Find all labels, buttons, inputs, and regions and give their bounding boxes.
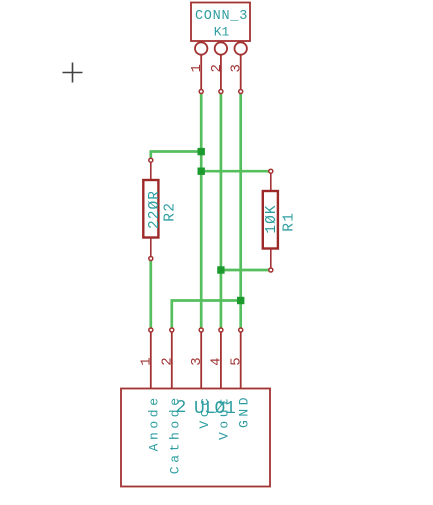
- sensor pin 1 end circle: [149, 328, 153, 332]
- svg-text:CONN_3: CONN_3: [195, 9, 248, 24]
- svg-text:R2: R2: [163, 202, 179, 222]
- resistor R2 top stub: [150, 162, 152, 180]
- sensor U1 body: [121, 389, 270, 487]
- sensor pin 4 end circle: [219, 328, 223, 332]
- sensor pin 3 stub: [200, 332, 202, 389]
- svg-text:5: 5: [229, 357, 245, 365]
- svg-text:22ØR: 22ØR: [147, 190, 163, 229]
- svg-text:U: U: [194, 399, 205, 419]
- K1 pin 3 stub: [240, 55, 242, 90]
- origin cross marker: [63, 63, 83, 83]
- sensor pin 2 stub: [171, 332, 173, 389]
- K1 pin 2 end circle: [219, 90, 223, 94]
- wire R2 bottom to sensor pin1: [149, 261, 152, 329]
- svg-text:2: 2: [209, 64, 225, 72]
- svg-text:2: 2: [160, 357, 176, 365]
- wire net Vout vertical from K1 pin2: [220, 94, 223, 329]
- junction at R1 top branch: [198, 168, 205, 175]
- svg-text:GND: GND: [236, 394, 251, 428]
- wire GND branch to sensor pin2: [172, 301, 241, 329]
- svg-text:3: 3: [229, 64, 245, 72]
- resistor R2 bottom stub: [150, 238, 152, 257]
- wire net Vcc vertical from K1 pin1: [200, 94, 203, 329]
- resistor R1 body: [263, 191, 278, 249]
- wire net GND vertical from K1 pin3: [239, 94, 242, 329]
- resistor R2 body: [143, 180, 158, 238]
- svg-text:3: 3: [189, 357, 205, 365]
- resistor R1 bottom pin circle: [269, 268, 273, 272]
- svg-text:2: 2: [176, 398, 187, 418]
- junction at R1 bottom branch: [217, 266, 224, 273]
- K1 pin 2 stub: [220, 55, 222, 90]
- K1 pin 2 circle: [215, 42, 227, 54]
- sensor pin 5 stub: [240, 332, 242, 389]
- K1 pin 1 end circle: [199, 90, 203, 94]
- svg-text:4: 4: [209, 357, 225, 365]
- K1 pin 3 circle: [235, 42, 247, 54]
- resistor R2 bottom pin circle: [149, 257, 153, 261]
- sensor pin 2 end circle: [170, 328, 174, 332]
- svg-text:1: 1: [225, 399, 236, 419]
- K1 pin 3 end circle: [239, 90, 243, 94]
- svg-text:R1: R1: [282, 212, 298, 232]
- svg-text:1ØK: 1ØK: [264, 204, 280, 233]
- svg-text:Ø: Ø: [215, 399, 226, 419]
- sensor pin 1 stub: [150, 332, 152, 389]
- K1 pin 1 stub: [200, 55, 202, 90]
- wire branch to R1 top: [201, 170, 269, 173]
- junction at GND branch: [237, 297, 244, 304]
- svg-text:K1: K1: [214, 25, 230, 40]
- sensor pin 4 stub: [220, 332, 222, 389]
- resistor R1 top stub: [270, 173, 272, 191]
- svg-text:1: 1: [139, 357, 155, 365]
- wire branch R1 bottom to Vout: [221, 269, 269, 272]
- junction at R2 branch: [198, 148, 205, 155]
- sensor pin 3 end circle: [199, 328, 203, 332]
- connector K1 body: [191, 3, 250, 42]
- resistor R1 top pin circle: [269, 169, 273, 173]
- svg-text:1: 1: [189, 64, 205, 72]
- wire branch to R2 top: [151, 152, 201, 159]
- resistor R1 bottom stub: [270, 249, 272, 269]
- resistor R2 top pin circle: [149, 158, 153, 162]
- sensor pin 5 end circle: [239, 328, 243, 332]
- svg-text:Anode: Anode: [146, 394, 161, 451]
- K1 pin 1 circle: [195, 42, 207, 54]
